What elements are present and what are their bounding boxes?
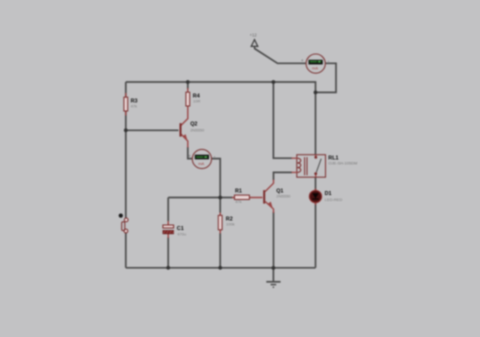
svg-text:47k: 47k bbox=[235, 199, 241, 204]
wire coil top feed bbox=[273, 82, 292, 158]
wire coil bottom to Q1 collector bbox=[274, 172, 293, 180]
svg-text:+12: +12 bbox=[250, 33, 258, 38]
wire R4 top stub bbox=[187, 82, 189, 89]
svg-text:+: + bbox=[188, 154, 191, 159]
wire C1 bottom drop bbox=[167, 237, 169, 268]
wire relay switch feed bbox=[315, 92, 317, 154]
svg-text:LED-RED: LED-RED bbox=[325, 197, 343, 202]
capacitor C1 bbox=[163, 221, 186, 238]
wire left vertical upper (rail to switch) bbox=[125, 82, 127, 220]
ground bbox=[266, 268, 280, 288]
transistor Q2 bbox=[180, 112, 205, 148]
wire base of Q2 bbox=[126, 129, 179, 131]
wire top rail bbox=[126, 82, 316, 92]
resistor R1 bbox=[232, 189, 263, 204]
push button switch bbox=[119, 214, 128, 233]
current probe meter (mid) bbox=[188, 149, 215, 168]
wire left vertical lower (switch to bottom rail) bbox=[125, 232, 127, 268]
svg-text:2N5550: 2N5550 bbox=[276, 193, 291, 198]
wire Q1 emitter to ground rail bbox=[273, 212, 275, 268]
resistor R2 bbox=[218, 213, 234, 234]
wire R2 bottom stub bbox=[219, 233, 221, 268]
svg-text:R1: R1 bbox=[235, 189, 242, 195]
wire meter right to mid node bbox=[212, 159, 221, 198]
wire power feed diagonal to ammeter bbox=[255, 49, 307, 64]
transistor Q1 bbox=[263, 180, 291, 214]
wire C1 top drop bbox=[167, 198, 169, 222]
wire R2 top stub bbox=[219, 198, 221, 213]
svg-text:2N5550: 2N5550 bbox=[190, 128, 205, 133]
LED D1 bbox=[309, 189, 342, 206]
wire D1 to bottom rail bbox=[315, 203, 317, 268]
svg-text:470u: 470u bbox=[177, 232, 186, 237]
wire Q2 emitter to meter bbox=[188, 147, 192, 159]
svg-text:mA: mA bbox=[312, 66, 318, 71]
wire bottom rail bbox=[126, 267, 316, 269]
svg-text:100k: 100k bbox=[226, 221, 235, 226]
relay RL1 bbox=[292, 155, 358, 178]
svg-text:47k: 47k bbox=[131, 104, 137, 109]
power symbol +12 bbox=[250, 33, 258, 49]
wire mid horizontal (C1 corner to R1) bbox=[168, 197, 232, 199]
wire relay to D1 bbox=[315, 177, 317, 190]
svg-text:mA: mA bbox=[198, 161, 204, 166]
svg-text:OJE-SH-105DM: OJE-SH-105DM bbox=[328, 161, 357, 166]
svg-text:10R: 10R bbox=[193, 99, 200, 104]
resistor R4 bbox=[186, 88, 201, 113]
ammeter (top) bbox=[301, 54, 330, 73]
resistor R3 bbox=[124, 93, 138, 116]
wire ammeter right loop bbox=[316, 63, 337, 92]
svg-text:+: + bbox=[301, 58, 304, 63]
node junction dots bbox=[186, 80, 190, 84]
